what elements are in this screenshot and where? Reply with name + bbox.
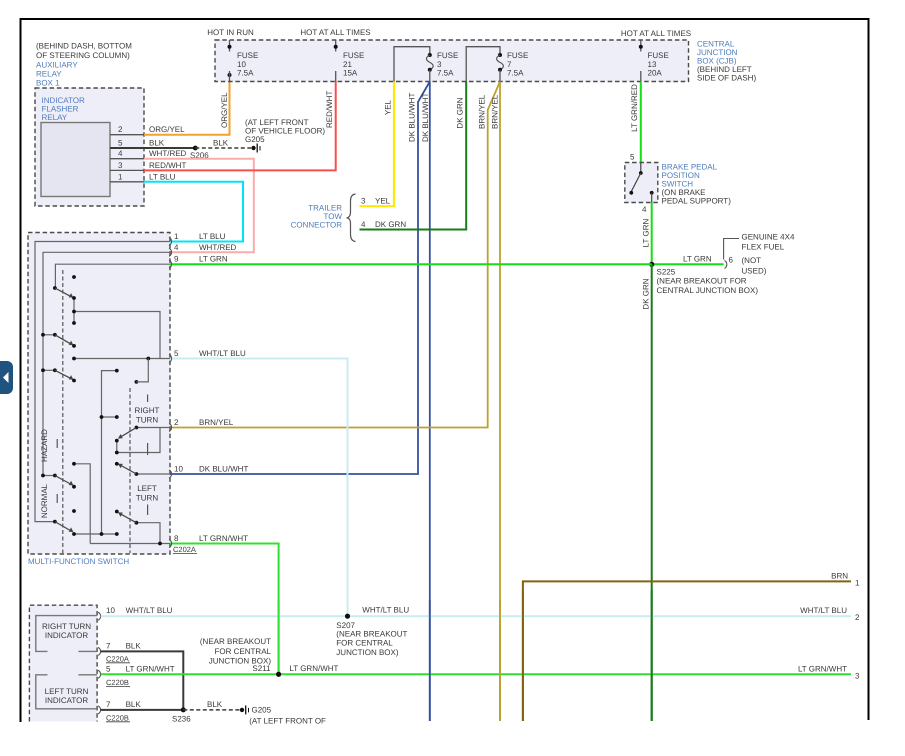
label genuine 4x4 flex fuel xyxy=(742,233,795,252)
svg-text:7.5A: 7.5A xyxy=(507,69,524,78)
switch arm normal2 xyxy=(53,520,74,533)
svg-text:CONNECTOR: CONNECTOR xyxy=(291,221,343,230)
fuse F21 xyxy=(334,40,365,82)
svg-text:PEDAL SUPPORT): PEDAL SUPPORT) xyxy=(662,197,732,206)
wire contact row4 link xyxy=(43,475,55,477)
label G205 lower xyxy=(249,706,326,726)
svg-text:G205: G205 xyxy=(252,706,272,715)
svg-text:BOX 1: BOX 1 xyxy=(36,79,60,88)
label brake pedal position switch xyxy=(662,163,732,206)
side collapse tab xyxy=(0,361,13,394)
indicator pin5 label xyxy=(106,664,175,673)
svg-text:(NOT: (NOT xyxy=(742,256,762,265)
label auxiliary relay box 1 xyxy=(36,61,78,88)
svg-text:AUXILIARY: AUXILIARY xyxy=(36,61,78,70)
splice S236 xyxy=(181,707,186,712)
svg-text:SIDE OF DASH): SIDE OF DASH) xyxy=(697,74,756,83)
svg-text:7: 7 xyxy=(106,641,111,650)
splice S211 xyxy=(276,672,281,677)
svg-text:15A: 15A xyxy=(343,69,358,78)
svg-text:JUNCTION BOX): JUNCTION BOX) xyxy=(336,648,399,657)
label left turn xyxy=(136,484,158,503)
wire pin2 gray lead xyxy=(136,427,170,429)
normal tick xyxy=(56,494,58,503)
svg-text:5: 5 xyxy=(174,349,179,358)
callout line genuine 4x4 xyxy=(724,239,739,260)
relay U1 body xyxy=(41,123,110,197)
relay pin labels xyxy=(118,125,187,181)
svg-text:4: 4 xyxy=(174,243,179,252)
wire WHT/LT BLU multifunction pin5 to splice S207 xyxy=(170,359,348,617)
linkage dashed right xyxy=(129,388,131,553)
switch arm left-turn xyxy=(118,512,138,524)
ground G205 lower xyxy=(240,705,249,714)
svg-text:HOT AT ALL TIMES: HOT AT ALL TIMES xyxy=(300,28,370,37)
svg-text:S211: S211 xyxy=(252,664,271,673)
multifunction pin labels xyxy=(174,232,248,543)
wire RED/WHT relay pin3 to fuse21 xyxy=(144,82,336,171)
svg-text:C202A: C202A xyxy=(173,545,196,554)
svg-text:10: 10 xyxy=(106,606,115,615)
connector label C220A xyxy=(106,654,130,663)
svg-text:DK GRN: DK GRN xyxy=(642,278,651,309)
trailer tow brace xyxy=(347,194,356,242)
brake switch contacts xyxy=(629,163,653,203)
svg-text:HAZARD: HAZARD xyxy=(40,429,49,462)
multifunction pin arcs xyxy=(169,238,172,548)
svg-text:G205: G205 xyxy=(245,135,265,144)
connector label C220B lower xyxy=(106,713,130,722)
wire WHT/LT BLU indicator pin10 to right edge pin2 xyxy=(101,615,851,617)
wire BLK dashed to G205 xyxy=(195,147,251,149)
svg-text:WHT/LT BLU: WHT/LT BLU xyxy=(800,606,847,615)
wire LT GRN/WHT riser overlay xyxy=(278,600,280,674)
relay box K1 dashed enclosure xyxy=(35,88,144,206)
wire BRN overlay lower xyxy=(522,590,524,721)
svg-text:(NEAR BREAKOUT: (NEAR BREAKOUT xyxy=(336,629,407,638)
svg-text:ORG/YEL: ORG/YEL xyxy=(220,92,229,128)
svg-text:2: 2 xyxy=(174,418,179,427)
svg-text:BLK: BLK xyxy=(126,641,142,650)
svg-text:1: 1 xyxy=(855,579,860,588)
svg-text:LT BLU: LT BLU xyxy=(149,172,176,181)
wire tap to pin5 riser xyxy=(74,312,160,359)
label S225 xyxy=(657,268,759,295)
svg-text:LT GRN: LT GRN xyxy=(642,218,651,247)
wire DK GRN splice S225 to bottom xyxy=(651,264,653,721)
wire WHT/RED relay pin4 to multifunction pin4 xyxy=(144,159,254,253)
svg-text:6: 6 xyxy=(729,256,734,265)
wire BLK indicator pin7b xyxy=(101,709,184,711)
svg-text:LT BLU: LT BLU xyxy=(199,232,226,241)
svg-text:4: 4 xyxy=(361,220,366,229)
svg-text:(NEAR BREAKOUT FOR: (NEAR BREAKOUT FOR xyxy=(657,277,747,286)
linkage dashed left xyxy=(62,270,64,553)
svg-text:2: 2 xyxy=(118,125,123,134)
trailer pin4 label xyxy=(361,220,406,229)
wire LT GRN/WHT multifunction pin8 to splice S211 xyxy=(170,544,279,675)
splice S207 xyxy=(345,614,350,619)
wire LT GRN splice S225 to pin6 stub xyxy=(652,263,724,265)
svg-text:DK BLU/WHT: DK BLU/WHT xyxy=(421,93,430,142)
wire BRN/YEL fuse7 to multifunction pin2 xyxy=(170,82,500,428)
label central junction box xyxy=(697,40,756,83)
label trailer tow connector xyxy=(291,204,343,230)
svg-text:NORMAL: NORMAL xyxy=(40,483,49,518)
wire BRN/YEL fuse7 to bottom xyxy=(499,82,501,722)
svg-text:9: 9 xyxy=(174,255,179,264)
left turn indicator lamp xyxy=(36,675,97,709)
svg-text:BLK: BLK xyxy=(126,700,142,709)
wire pin9 bus xyxy=(55,264,170,288)
turn indicator dashed enclosure xyxy=(29,605,97,721)
svg-text:3: 3 xyxy=(855,671,860,680)
svg-text:RED/WHT: RED/WHT xyxy=(149,161,186,170)
wire LT GRN brake switch to splice S225 xyxy=(651,203,653,265)
brake pedal position switch SW2 dashed enclosure xyxy=(625,163,658,203)
svg-text:(NEAR BREAKOUT: (NEAR BREAKOUT xyxy=(200,637,271,646)
wire LT GRN/WHT indicator pin5 to right edge pin3 xyxy=(101,673,851,675)
svg-text:INDICATOR: INDICATOR xyxy=(45,696,88,705)
svg-text:RIGHT TURN: RIGHT TURN xyxy=(42,622,91,631)
left turn tick xyxy=(147,505,149,516)
wire BLK indicator pin7 to splice S236 xyxy=(101,651,184,710)
svg-text:DK BLU/WHT: DK BLU/WHT xyxy=(199,465,248,474)
svg-text:C220B: C220B xyxy=(106,713,129,722)
trailer pin3 label xyxy=(361,197,391,206)
connector label C220B xyxy=(106,678,130,687)
svg-text:WHT/LT BLU: WHT/LT BLU xyxy=(362,605,409,614)
svg-text:10: 10 xyxy=(174,465,183,474)
wire DK BLU/WHT fuse3 to bottom xyxy=(429,82,431,722)
svg-text:3: 3 xyxy=(361,197,366,206)
wire left-turn loop to pin8 xyxy=(136,523,160,544)
svg-text:RELAY: RELAY xyxy=(36,70,62,79)
svg-text:(AT LEFT FRONT OF: (AT LEFT FRONT OF xyxy=(249,716,326,725)
svg-text:FUSE: FUSE xyxy=(237,51,258,60)
wire V6 riser xyxy=(74,464,90,544)
svg-text:WHT/RED: WHT/RED xyxy=(199,243,237,252)
svg-text:S236: S236 xyxy=(172,715,191,724)
svg-text:5: 5 xyxy=(106,664,111,673)
svg-text:C220B: C220B xyxy=(106,678,129,687)
svg-text:BRN/YEL: BRN/YEL xyxy=(199,418,234,427)
label indicator flasher relay xyxy=(42,96,85,122)
label S211 block xyxy=(200,637,272,673)
svg-text:GENUINE 4X4: GENUINE 4X4 xyxy=(742,233,795,242)
svg-text:ORG/YEL: ORG/YEL xyxy=(149,125,185,134)
svg-text:LT GRN/RED: LT GRN/RED xyxy=(630,84,639,132)
svg-text:5: 5 xyxy=(118,139,123,148)
svg-text:RED/WHT: RED/WHT xyxy=(325,91,334,128)
ground G205 xyxy=(251,144,260,153)
hazard tick xyxy=(56,439,58,448)
svg-text:WHT/LT BLU: WHT/LT BLU xyxy=(199,349,246,358)
indicator pin7b label xyxy=(106,700,141,709)
svg-text:LT GRN: LT GRN xyxy=(683,255,712,264)
svg-text:FLEX FUEL: FLEX FUEL xyxy=(742,243,785,252)
svg-text:LT GRN/WHT: LT GRN/WHT xyxy=(199,534,248,543)
contact dot pin5 link xyxy=(135,380,139,384)
right turn indicator lamp xyxy=(36,616,97,652)
svg-text:TURN: TURN xyxy=(136,494,158,503)
indicator pin7 label xyxy=(106,641,141,650)
svg-text:LT GRN/WHT: LT GRN/WHT xyxy=(798,664,847,673)
wire DK BLU/WHT overlay lower xyxy=(429,600,431,721)
svg-text:DK GRN: DK GRN xyxy=(375,220,406,229)
svg-text:LT GRN: LT GRN xyxy=(199,255,228,264)
wire LT GRN/RED fuse13 to brake switch xyxy=(640,82,642,163)
fuse F7 with feed elbow xyxy=(466,47,528,82)
svg-text:LT GRN/WHT: LT GRN/WHT xyxy=(126,664,175,673)
svg-text:DK GRN: DK GRN xyxy=(456,97,465,128)
splice S225 xyxy=(649,262,654,267)
svg-text:2: 2 xyxy=(855,613,860,622)
switch arm hazard1 xyxy=(53,286,74,298)
indicator pin arcs xyxy=(98,612,101,714)
wire contact row2 link xyxy=(43,334,55,336)
switch arm right-turn xyxy=(118,426,138,439)
wire fixed contact column top xyxy=(73,298,75,323)
wire pin1 bus xyxy=(35,242,170,522)
switch arm mid xyxy=(118,464,138,476)
note G205 location xyxy=(245,118,325,144)
svg-text:TURN: TURN xyxy=(136,416,158,425)
label S207 block xyxy=(336,621,407,657)
svg-text:USED): USED) xyxy=(742,267,767,276)
svg-text:RIGHT: RIGHT xyxy=(135,406,160,415)
svg-text:LT GRN/WHT: LT GRN/WHT xyxy=(289,664,338,673)
central junction box dashed enclosure xyxy=(215,40,689,82)
svg-text:BRN/YEL: BRN/YEL xyxy=(478,94,487,129)
switch arm hazard3 xyxy=(41,368,73,380)
wire BLK relay pin5 xyxy=(110,147,195,149)
fuse F13 xyxy=(639,40,669,82)
svg-text:4: 4 xyxy=(642,205,647,214)
wire middle riser V4 xyxy=(102,371,117,534)
fuse F3 with feed elbow xyxy=(394,47,458,82)
svg-text:BLK: BLK xyxy=(207,700,223,709)
svg-text:FOR CENTRAL: FOR CENTRAL xyxy=(336,639,393,648)
contact dots column x74 xyxy=(72,275,76,536)
wire BRN elbow to right edge pin1 xyxy=(523,581,851,721)
svg-text:4: 4 xyxy=(118,149,123,158)
svg-text:YEL: YEL xyxy=(384,99,393,115)
wire pin10 gray lead xyxy=(136,473,170,475)
wire ORG/YEL relay pin2 to fuse10 xyxy=(144,82,230,135)
switch arm hazard2 xyxy=(41,333,73,346)
svg-text:BRN/YEL: BRN/YEL xyxy=(491,94,500,129)
wire LT GRN multifunction pin9 to splice S225 xyxy=(170,263,652,265)
contact dots middle columns xyxy=(100,357,162,546)
wire h-tap y417 xyxy=(102,416,117,418)
wire DK BLU/WHT fuse3 to multifunction pin10 xyxy=(170,82,430,475)
svg-text:HOT IN RUN: HOT IN RUN xyxy=(207,28,254,37)
wire DK GRN overlay lower xyxy=(651,590,653,721)
svg-text:INDICATOR: INDICATOR xyxy=(45,631,88,640)
svg-text:DK BLU/WHT: DK BLU/WHT xyxy=(408,93,417,142)
svg-text:CENTRAL JUNCTION BOX): CENTRAL JUNCTION BOX) xyxy=(657,286,759,295)
svg-text:FUSE: FUSE xyxy=(648,51,669,60)
label right turn xyxy=(135,406,160,425)
svg-text:3: 3 xyxy=(118,161,123,170)
switch interior bus lines xyxy=(35,242,170,544)
relay pin stubs xyxy=(110,135,144,182)
splice S211 top xyxy=(276,672,281,677)
svg-text:LEFT TURN: LEFT TURN xyxy=(45,687,89,696)
svg-text:BLK: BLK xyxy=(149,139,165,148)
svg-text:7: 7 xyxy=(106,700,111,709)
svg-text:1: 1 xyxy=(174,232,179,241)
svg-text:HOT AT ALL TIMES: HOT AT ALL TIMES xyxy=(621,29,691,38)
splice S206 xyxy=(193,146,198,151)
wire pin8 gray lead xyxy=(90,543,170,545)
pin6 connector arc xyxy=(725,261,727,269)
wire DK GRN fuse7 feed to trailer tow pin4 xyxy=(360,82,467,230)
label not used xyxy=(742,256,767,276)
switch arm normal1 xyxy=(41,474,73,486)
wire right-turn moving contact loop xyxy=(117,428,160,453)
svg-text:FOR CENTRAL: FOR CENTRAL xyxy=(215,647,272,656)
wire BRN/YEL overlay lower xyxy=(499,600,501,721)
svg-text:8: 8 xyxy=(174,534,179,543)
svg-text:WHT/LT BLU: WHT/LT BLU xyxy=(126,606,173,615)
wire YEL fuse3 feed to trailer tow pin3 xyxy=(360,82,395,207)
svg-text:7.5A: 7.5A xyxy=(237,69,254,78)
svg-text:FUSE: FUSE xyxy=(437,51,458,60)
connector label C202A xyxy=(173,545,197,554)
label left turn indicator xyxy=(45,687,89,705)
wire pin5 right link xyxy=(136,359,148,382)
svg-text:MULTI-FUNCTION SWITCH: MULTI-FUNCTION SWITCH xyxy=(28,557,129,566)
svg-text:BLK: BLK xyxy=(213,139,229,148)
svg-text:LEFT: LEFT xyxy=(137,484,157,493)
wire pin5 line xyxy=(74,358,170,360)
svg-text:RELAY: RELAY xyxy=(42,113,68,122)
wire pin4 bus xyxy=(43,252,170,475)
svg-text:FUSE: FUSE xyxy=(507,51,528,60)
wire BLK dashed to G205 lower xyxy=(183,709,239,711)
svg-text:OF STEERING COLUMN): OF STEERING COLUMN) xyxy=(36,51,130,60)
svg-text:FUSE: FUSE xyxy=(343,51,364,60)
svg-text:(BEHIND DASH, BOTTOM: (BEHIND DASH, BOTTOM xyxy=(36,42,132,51)
svg-text:YEL: YEL xyxy=(375,197,391,206)
wire h-tap y534 xyxy=(74,533,117,535)
svg-text:7.5A: 7.5A xyxy=(437,69,454,78)
svg-text:S225: S225 xyxy=(657,268,676,277)
multi-function switch dashed enclosure xyxy=(28,233,170,555)
indicator pin10 label xyxy=(106,606,173,615)
fuse F10 xyxy=(228,40,259,82)
svg-text:5: 5 xyxy=(630,153,635,162)
right turn ticks xyxy=(147,395,149,456)
svg-text:WHT/RED: WHT/RED xyxy=(149,149,187,158)
label right turn indicator xyxy=(42,622,91,640)
wire contact row3 link xyxy=(43,369,55,371)
splice S207 top xyxy=(345,614,350,619)
svg-text:BRN: BRN xyxy=(831,572,848,581)
note: behind dash bottom of steering column xyxy=(36,42,132,61)
svg-text:C220A: C220A xyxy=(106,654,129,663)
wire LT BLU relay pin1 to multifunction pin1 xyxy=(144,182,243,242)
svg-text:1: 1 xyxy=(118,172,123,181)
svg-text:20A: 20A xyxy=(648,69,663,78)
